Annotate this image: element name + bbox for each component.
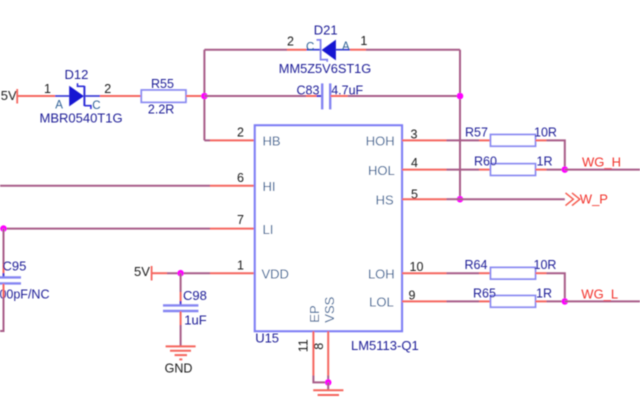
wire R60 right stub (536, 169, 547, 171)
diode D12 (Schottky) (55, 83, 100, 109)
ground GND (earth symbol) (166, 346, 196, 359)
svg-text:1: 1 (44, 82, 51, 96)
pin stub VSS (pin 8) (327, 331, 329, 382)
svg-text:10: 10 (410, 260, 424, 274)
pin stub LOL (pin 9) (402, 300, 447, 302)
wire HOL to R60 (447, 169, 480, 171)
svg-text:VSS: VSS (322, 296, 337, 322)
junction HS / loop right (457, 196, 464, 203)
svg-text:2: 2 (287, 35, 294, 49)
wire LI net (from left edge) (0, 228, 210, 230)
resistor R57 (491, 135, 536, 147)
svg-text:D21: D21 (314, 22, 338, 37)
svg-text:1R: 1R (537, 155, 553, 169)
pin stub HOL (pin 4) (402, 169, 447, 171)
junction LI / C95 (0, 225, 7, 232)
wire node A vertical (loop left: up to D21, down to HB corner) (203, 50, 205, 141)
wire C95 branch vertical (3, 229, 5, 277)
wire R65 left stub (479, 300, 491, 302)
resistor R65 (491, 296, 536, 308)
svg-text:2: 2 (237, 125, 244, 139)
svg-text:C98: C98 (183, 288, 207, 303)
svg-text:A: A (342, 41, 350, 53)
svg-text:R57: R57 (465, 125, 488, 139)
svg-text:HB: HB (263, 134, 281, 149)
svg-text:2: 2 (104, 82, 111, 96)
wire R57 left stub (479, 139, 491, 141)
svg-text:C95: C95 (3, 258, 27, 273)
svg-text:1uF: 1uF (184, 313, 206, 328)
svg-text:LM5113-Q1: LM5113-Q1 (351, 338, 419, 353)
svg-text:5V: 5V (1, 88, 17, 103)
pin stub HS (pin 5) (402, 198, 447, 200)
wire node A corner to HB pin (204, 139, 210, 141)
wire R57 right stub (536, 139, 547, 141)
svg-text:GND: GND (165, 361, 193, 375)
wire WG_L to right edge (565, 300, 640, 302)
junction WG_H (562, 166, 569, 173)
pin stub HOH (pin 3) (402, 139, 447, 141)
wire C83 to loop right vertical (348, 95, 460, 97)
svg-text:C: C (306, 41, 314, 53)
svg-text:WG_L: WG_L (581, 287, 618, 302)
svg-text:MBR0540T1G: MBR0540T1G (40, 110, 123, 125)
wire 5V port to D12 pin 1 (18, 95, 55, 97)
capacitor C83 (317, 83, 337, 109)
svg-text:W_P: W_P (580, 191, 608, 206)
svg-text:5V: 5V (134, 264, 150, 279)
svg-text:10R: 10R (534, 125, 557, 139)
wire R64 to WG_L corner (547, 273, 565, 301)
svg-text:LOL: LOL (369, 295, 394, 310)
wire R64 right stub (536, 272, 547, 274)
svg-text:1R: 1R (536, 286, 552, 300)
wire HS junction to W_P port (460, 198, 565, 200)
zener diode D21 (307, 40, 351, 62)
pin stub HB (pin 2) (210, 139, 255, 141)
svg-text:R55: R55 (151, 77, 174, 91)
wire VSS junction to ground (327, 382, 329, 390)
wire node A to C83 left (204, 95, 306, 97)
wire D12 pin 2 to R55 (100, 95, 141, 97)
svg-text:LOH: LOH (368, 267, 395, 282)
wire C83 left stub (306, 95, 322, 97)
svg-text:8: 8 (312, 343, 326, 350)
pin stub EP (pin 11) (313, 331, 328, 382)
wire R64 left stub (479, 272, 491, 274)
wire LOH to R64 (447, 272, 480, 274)
svg-text:LI: LI (263, 222, 274, 237)
wire R60 left stub (479, 169, 491, 171)
wire R57 to WG_H corner (547, 140, 565, 169)
wire WG_H to right edge (565, 169, 640, 171)
wire R60 to WG_H node (547, 169, 565, 171)
svg-text:11: 11 (296, 339, 310, 352)
wire loop right vertical (down to HS) (459, 50, 461, 200)
port 5V (VDD) (134, 264, 152, 281)
wire HS to loop right junction (447, 198, 461, 200)
svg-text:C83: C83 (297, 84, 320, 98)
capacitor C98 (163, 301, 198, 315)
pin stub HI (pin 6) (210, 185, 255, 187)
svg-text:EP: EP (307, 305, 322, 322)
wire C83 right stub (331, 95, 348, 97)
svg-text:R60: R60 (474, 155, 497, 169)
wire 5V port to VDD node (152, 272, 210, 274)
junction C83 right / loop right (457, 93, 464, 100)
wire HI net (from left edge) (0, 185, 210, 187)
svg-text:6: 6 (237, 171, 244, 185)
wire C98 branch vertical (180, 273, 182, 305)
pin stub VDD (pin 1) (210, 272, 255, 274)
wire C98 bottom to GND (180, 311, 182, 346)
port W_P chevrons (566, 193, 580, 206)
wire HOH to R57 (447, 139, 480, 141)
junction EP/VSS (325, 379, 332, 386)
svg-text:9: 9 (409, 288, 416, 302)
junction WG_L (562, 298, 569, 305)
svg-text:U15: U15 (255, 330, 279, 345)
capacitor C95 (0, 273, 21, 288)
pin stub LOH (pin 10) (402, 272, 447, 274)
svg-text:MM5Z5V6ST1G: MM5Z5V6ST1G (279, 61, 371, 76)
svg-text:HS: HS (376, 193, 394, 208)
resistor R64 (491, 267, 536, 279)
IC U15 LM5113-Q1 body (255, 125, 402, 331)
svg-text:VDD: VDD (262, 267, 289, 282)
svg-text:7: 7 (237, 213, 244, 227)
pin stub LI (pin 7) (210, 228, 255, 230)
svg-text:R65: R65 (473, 286, 496, 300)
svg-text:1: 1 (237, 258, 244, 272)
svg-text:D12: D12 (65, 67, 89, 82)
junction node A (R55 / C83 / HB) (201, 93, 208, 100)
ground (VSS earth symbol) (313, 390, 343, 395)
svg-text:R64: R64 (465, 258, 488, 272)
resistor R60 (491, 164, 536, 176)
wire loop top left segment (204, 49, 287, 51)
svg-text:2.2R: 2.2R (148, 103, 174, 117)
svg-text:4: 4 (411, 156, 418, 170)
svg-text:3: 3 (411, 127, 418, 141)
svg-text:WG_H: WG_H (582, 155, 621, 170)
wire C95 bottom to left edge (0, 284, 4, 331)
wire R65 to WG_L node (547, 300, 565, 302)
svg-text:HOL: HOL (368, 163, 395, 178)
svg-text:10R: 10R (534, 258, 557, 272)
svg-text:HI: HI (263, 179, 276, 194)
junction VDD / C98 (177, 270, 184, 277)
svg-text:100pF/NC: 100pF/NC (0, 288, 49, 302)
wire LOL to R65 (447, 300, 480, 302)
svg-text:1: 1 (360, 34, 367, 48)
resistor R55 (141, 90, 186, 102)
svg-text:HOH: HOH (366, 134, 395, 149)
port 5V (top-left) (1, 88, 17, 103)
wire R65 right stub (536, 300, 547, 302)
wire D21 pin 1 stub (350, 49, 366, 51)
wire stub to D21 pin 2 (287, 49, 307, 51)
wire loop top right segment (366, 49, 460, 51)
svg-text:5: 5 (411, 187, 418, 201)
wire R55 to node A (186, 95, 202, 97)
